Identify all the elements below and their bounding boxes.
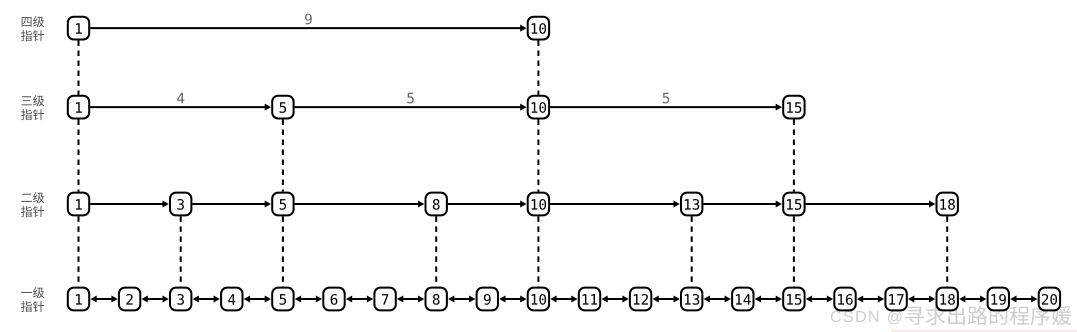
wire: double arrow L1 12-13	[653, 296, 680, 303]
node L1-14	[732, 288, 753, 311]
wire: arrow L3 10-15	[550, 104, 782, 111]
dashed link col 18 L2-L1	[946, 216, 948, 286]
node L2-18	[937, 193, 958, 216]
node L1-9	[477, 288, 498, 311]
wire: double arrow L1 4-5	[244, 296, 271, 303]
node L1-2	[119, 288, 140, 311]
wire: arrow L2 15-18	[806, 201, 936, 208]
row label 一级指针 (level 1)	[21, 287, 44, 312]
dashed link col 1 L2-L1	[78, 216, 80, 286]
bottom-right pink strip	[891, 329, 1077, 332]
wire: arrow L2 3-5	[192, 201, 271, 208]
wire: double arrow L1 17-18	[908, 296, 935, 303]
dashed link col 10 L2-L1	[537, 216, 539, 286]
node L1-20	[1039, 288, 1060, 311]
label 4 on arrow L3 1-5	[177, 93, 184, 103]
wire: double arrow L1 9-10	[499, 296, 526, 303]
node L1-11	[579, 288, 600, 311]
dashed link col 5 L2-L1	[282, 216, 284, 286]
node L1-19	[988, 288, 1009, 311]
node L1-16	[834, 288, 855, 311]
wire: double arrow L1 5-6	[295, 296, 322, 303]
dashed link col 13 L2-L1	[691, 216, 693, 286]
wire: arrow L4 1-10	[90, 25, 526, 32]
dashed link col 1 L4-L3	[78, 41, 80, 95]
node L1-18	[937, 288, 958, 311]
node L2-13	[681, 193, 702, 216]
node L1-3	[170, 288, 191, 311]
node L4-10	[528, 17, 549, 40]
wire: double arrow L1 3-4	[193, 296, 220, 303]
node L1-17	[885, 288, 906, 311]
wire: arrow L2 8-10	[448, 201, 527, 208]
wire: double arrow L1 2-3	[142, 296, 169, 303]
label 5 on arrow L3 5-10	[407, 93, 413, 104]
node L1-5	[272, 288, 293, 311]
wire: arrow L2 10-13	[550, 201, 680, 208]
node L4-1	[68, 17, 89, 40]
wire: double arrow L1 19-20	[1010, 296, 1037, 303]
node L3-15	[783, 96, 804, 119]
dashed link col 10 L4-L3	[537, 41, 539, 95]
node L2-3	[170, 193, 191, 216]
node L1-8	[426, 288, 447, 311]
watermark CSDN @寻求出路的程序媛	[831, 306, 1072, 325]
wire: double arrow L1 7-8	[397, 296, 424, 303]
node L3-1	[68, 96, 89, 119]
wire: double arrow L1 16-17	[857, 296, 884, 303]
dashed link col 15 L3-L2	[793, 120, 795, 192]
wire: double arrow L1 13-14	[704, 296, 731, 303]
node L1-15	[783, 288, 804, 311]
node L1-7	[374, 288, 395, 311]
row label 三级指针 (level 3)	[21, 95, 44, 120]
row label 二级指针 (level 2)	[21, 192, 44, 217]
wire: double arrow L1 1-2	[90, 296, 117, 303]
label 5 on arrow L3 10-15	[663, 93, 669, 104]
node L1-4	[221, 288, 242, 311]
node L1-10	[528, 288, 549, 311]
wire: double arrow L1 18-19	[959, 296, 986, 303]
dashed link col 15 L2-L1	[793, 216, 795, 286]
label 9 on arrow L4 1-10	[305, 14, 312, 25]
wire: arrow L3 1-5	[90, 104, 271, 111]
wire: double arrow L1 6-7	[346, 296, 373, 303]
wire: arrow L2 1-3	[90, 201, 169, 208]
node L2-5	[272, 193, 293, 216]
node L3-5	[272, 96, 293, 119]
node L2-10	[528, 193, 549, 216]
wire: double arrow L1 11-12	[601, 296, 628, 303]
dashed link col 3 L2-L1	[180, 216, 182, 286]
wire: double arrow L1 14-15	[755, 296, 782, 303]
row label 四级指针 (level 4)	[21, 16, 44, 41]
node L1-1	[68, 288, 89, 311]
node L3-10	[528, 96, 549, 119]
wire: arrow L3 5-10	[295, 104, 527, 111]
dashed link col 1 L3-L2	[78, 120, 80, 192]
node L1-12	[630, 288, 651, 311]
wire: double arrow L1 8-9	[448, 296, 475, 303]
wire: arrow L2 13-15	[703, 201, 782, 208]
node L1-6	[323, 288, 344, 311]
dashed link col 8 L2-L1	[435, 216, 437, 286]
node L2-8	[426, 193, 447, 216]
node L2-1	[68, 193, 89, 216]
dashed link col 10 L3-L2	[537, 120, 539, 192]
wire: double arrow L1 15-16	[806, 296, 833, 303]
node L1-13	[681, 288, 702, 311]
dashed link col 5 L3-L2	[282, 120, 284, 192]
node L2-15	[783, 193, 804, 216]
wire: arrow L2 5-8	[295, 201, 425, 208]
wire: double arrow L1 10-11	[550, 296, 577, 303]
